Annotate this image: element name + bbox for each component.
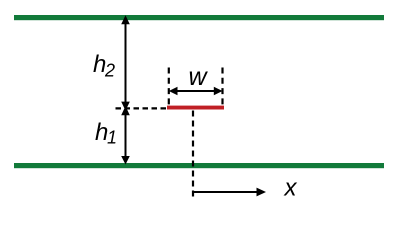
strip conductor (red): [167, 106, 224, 110]
dimension w right arrowhead: [214, 87, 223, 95]
svg-text:x: x: [284, 174, 298, 201]
svg-text:w: w: [189, 63, 209, 91]
dimension h2 line: [125, 19, 127, 103]
dimension h2 bottom arrowhead: [121, 102, 130, 111]
svg-text:1: 1: [107, 128, 117, 148]
dashed centre line below strip: [192, 111, 194, 199]
dimension w left arrowhead: [169, 87, 178, 95]
dashed reference line from dimension line to strip: [116, 107, 168, 109]
dimension w arrow line: [172, 90, 219, 92]
dashed extension line left of strip width: [168, 68, 170, 106]
svg-text:2: 2: [104, 61, 115, 81]
top ground plane: [14, 15, 384, 20]
dimension h2 top arrowhead: [121, 15, 130, 24]
bottom ground plane: [14, 163, 384, 168]
dimension h1 line: [125, 112, 127, 160]
dashed extension line right of strip width: [221, 68, 223, 106]
x axis arrow line: [194, 191, 259, 193]
x axis arrowhead: [257, 188, 267, 197]
dimension h1 top arrowhead: [121, 106, 130, 115]
dimension h1 bottom arrowhead: [121, 156, 130, 165]
